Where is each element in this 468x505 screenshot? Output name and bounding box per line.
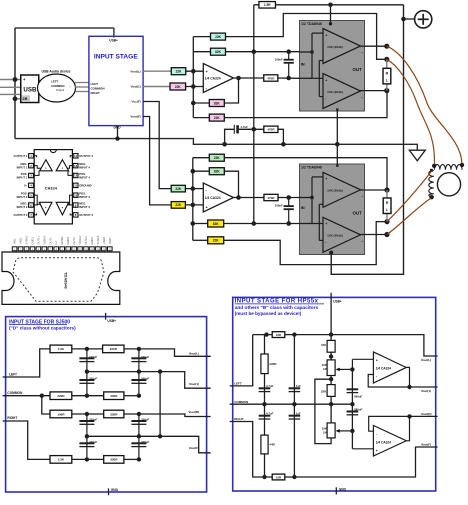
svg-text:100uF: 100uF xyxy=(89,418,97,422)
svg-text:1.5R: 1.5R xyxy=(264,3,271,7)
svg-text:R: R xyxy=(386,72,389,76)
svg-text:+: + xyxy=(325,222,327,226)
svg-text:2B: 2B xyxy=(22,96,27,101)
svg-text:-IN2R: -IN2R xyxy=(108,238,112,245)
svg-text:330R: 330R xyxy=(110,458,118,462)
svg-text:Vout(L): Vout(L) xyxy=(189,351,199,355)
svg-text:4.7uF: 4.7uF xyxy=(241,125,249,129)
svg-text:330R: 330R xyxy=(110,394,118,398)
svg-text:22K: 22K xyxy=(214,156,221,160)
svg-text:OUT: OUT xyxy=(353,67,363,72)
svg-text:82K: 82K xyxy=(214,170,221,174)
svg-text:+: + xyxy=(376,449,378,453)
svg-text:1/2 TDA8946: 1/2 TDA8946 xyxy=(301,22,322,26)
svg-text:SVRA2: SVRA2 xyxy=(96,235,100,244)
svg-text:RIGHT: RIGHT xyxy=(91,91,101,95)
svg-text:LEFT: LEFT xyxy=(91,82,99,86)
svg-text:22K: 22K xyxy=(321,389,327,393)
svg-text:+IN1L: +IN1L xyxy=(19,237,23,245)
svg-text:USB: USB xyxy=(23,86,37,93)
svg-text:2.2K: 2.2K xyxy=(58,347,65,351)
svg-text:IN: IN xyxy=(301,61,305,66)
svg-text:100uF: 100uF xyxy=(89,377,97,381)
svg-text:INPUT 2: INPUT 2 xyxy=(17,205,28,209)
svg-text:CA324: CA324 xyxy=(45,185,58,190)
svg-text:2.2K: 2.2K xyxy=(58,458,65,462)
svg-text:USB+: USB+ xyxy=(107,319,116,323)
svg-text:Vout(F): Vout(F) xyxy=(130,115,140,119)
svg-text:+: + xyxy=(325,177,327,181)
svg-text:-IN1L: -IN1L xyxy=(13,238,17,245)
svg-text:220R: 220R xyxy=(110,347,118,351)
svg-text:SVRA1: SVRA1 xyxy=(25,235,29,244)
svg-text:USB+: USB+ xyxy=(333,300,342,304)
svg-text:-: - xyxy=(325,240,326,244)
svg-text:("D" class without capacitors): ("D" class without capacitors) xyxy=(9,325,76,330)
svg-text:VDDA1: VDDA1 xyxy=(42,235,46,244)
svg-text:OUT1-: OUT1- xyxy=(48,236,52,244)
svg-text:OUTPUT 2: OUTPUT 2 xyxy=(14,213,28,217)
svg-text:1M: 1M xyxy=(323,367,328,371)
svg-text:-: - xyxy=(325,60,326,64)
svg-text:22K: 22K xyxy=(176,70,183,74)
svg-text:220R: 220R xyxy=(57,394,65,398)
svg-text:12: 12 xyxy=(74,174,78,178)
svg-text:100R: 100R xyxy=(57,412,65,416)
svg-text:Output: Output xyxy=(56,88,64,92)
svg-text:OUTPUT 4: OUTPUT 4 xyxy=(79,154,93,158)
svg-text:Vout(L): Vout(L) xyxy=(421,358,431,362)
svg-text:MODE: MODE xyxy=(60,236,64,244)
svg-text:INPUT 2: INPUT 2 xyxy=(17,195,28,199)
svg-text:Vout(1): Vout(1) xyxy=(131,85,141,89)
svg-text:22K: 22K xyxy=(175,187,182,191)
svg-text:+: + xyxy=(361,194,363,198)
svg-text:INPUT 1: INPUT 1 xyxy=(17,176,28,180)
svg-text:4.7uF: 4.7uF xyxy=(266,384,274,388)
svg-text:←: ← xyxy=(69,84,72,88)
svg-text:10R: 10R xyxy=(276,333,282,337)
svg-text:220R: 220R xyxy=(269,362,277,366)
svg-text:GROUND: GROUND xyxy=(79,184,91,188)
svg-text:Vout(R): Vout(R) xyxy=(421,412,432,416)
svg-text:+: + xyxy=(361,50,363,54)
svg-text:V+: V+ xyxy=(24,184,28,188)
svg-text:82K: 82K xyxy=(213,222,220,226)
svg-text:1uF: 1uF xyxy=(296,384,301,388)
svg-text:RIGHT: RIGHT xyxy=(7,416,17,420)
svg-text:880nF: 880nF xyxy=(354,408,362,412)
svg-text:GNDS: GNDS xyxy=(66,237,70,245)
svg-text:10X (20db): 10X (20db) xyxy=(327,234,343,238)
svg-text:1/4 CA324: 1/4 CA324 xyxy=(205,76,221,80)
svg-text:COMMON: COMMON xyxy=(91,86,105,90)
svg-text:GND2: GND2 xyxy=(90,237,94,245)
svg-text:1/4 CA324: 1/4 CA324 xyxy=(205,196,221,200)
svg-text:100uF: 100uF xyxy=(141,377,149,381)
svg-text:22K: 22K xyxy=(213,239,220,243)
svg-text:+: + xyxy=(376,359,378,363)
svg-text:Vout(1): Vout(1) xyxy=(189,382,199,386)
svg-text:22K: 22K xyxy=(175,85,182,89)
svg-text:Vout(F): Vout(F) xyxy=(189,446,199,450)
svg-text:IN: IN xyxy=(301,205,305,210)
svg-text:880nF: 880nF xyxy=(354,394,362,398)
svg-text:1uF: 1uF xyxy=(296,412,301,416)
svg-text:Vcc(F): Vcc(F) xyxy=(132,100,141,104)
svg-text:GND: GND xyxy=(111,488,119,492)
svg-text:OUTPUT 1: OUTPUT 1 xyxy=(14,154,28,158)
svg-text:10R: 10R xyxy=(276,475,282,479)
svg-text:Vout(F): Vout(F) xyxy=(421,442,431,446)
svg-text:1/4 CA324: 1/4 CA324 xyxy=(376,441,391,445)
svg-text:11: 11 xyxy=(74,184,77,188)
svg-text:10: 10 xyxy=(74,193,78,197)
svg-text:47K: 47K xyxy=(321,343,327,347)
svg-text:10X (20db): 10X (20db) xyxy=(327,45,343,49)
svg-text:INPUT 4: INPUT 4 xyxy=(79,176,90,180)
svg-text:USB Audio device: USB Audio device xyxy=(41,69,70,73)
svg-text:RIGHT: RIGHT xyxy=(234,417,244,421)
svg-text:1M: 1M xyxy=(323,430,328,434)
svg-text:100uF: 100uF xyxy=(89,440,97,444)
svg-text:GND1: GND1 xyxy=(30,237,34,245)
svg-text:+IN2R: +IN2R xyxy=(102,237,106,245)
svg-text:22K: 22K xyxy=(214,116,221,120)
svg-text:1/4 CA324: 1/4 CA324 xyxy=(376,366,391,370)
svg-text:4.7uF: 4.7uF xyxy=(266,412,274,416)
svg-text:COMMON: COMMON xyxy=(7,391,23,395)
svg-text:COMMON: COMMON xyxy=(234,400,248,404)
svg-text:82K: 82K xyxy=(215,50,222,54)
svg-text:INPUT STAGE: INPUT STAGE xyxy=(94,54,138,61)
svg-text:22K: 22K xyxy=(215,35,222,39)
svg-text:100uF: 100uF xyxy=(141,355,149,359)
svg-text:INPUT 3: INPUT 3 xyxy=(79,195,90,199)
svg-text:22K: 22K xyxy=(175,203,182,207)
svg-text:+: + xyxy=(361,239,363,243)
svg-text:INPUT 1: INPUT 1 xyxy=(17,166,28,170)
svg-text:LEFT: LEFT xyxy=(9,372,17,376)
svg-text:LEFT: LEFT xyxy=(234,382,242,386)
svg-text:Vout(R): Vout(R) xyxy=(188,410,199,414)
svg-text:USB+: USB+ xyxy=(109,38,118,42)
svg-text:-: - xyxy=(325,96,326,100)
svg-text:R: R xyxy=(386,201,389,205)
svg-text:100uF: 100uF xyxy=(89,355,97,359)
svg-text:470R: 470R xyxy=(267,128,275,132)
svg-text:COMMON: COMMON xyxy=(51,84,65,88)
svg-text:1/2 TDA8946: 1/2 TDA8946 xyxy=(301,166,322,170)
svg-text:OUT2-: OUT2- xyxy=(72,236,76,244)
svg-text:GND: GND xyxy=(339,488,347,492)
svg-text:330R: 330R xyxy=(110,412,118,416)
svg-text:44R: 44R xyxy=(269,443,275,447)
svg-text:+: + xyxy=(325,78,327,82)
svg-text:+: + xyxy=(361,95,363,99)
svg-text:OUT2+: OUT2+ xyxy=(84,235,88,244)
svg-text:14: 14 xyxy=(74,154,78,158)
svg-text:INPUT 3: INPUT 3 xyxy=(79,205,90,209)
svg-text:470R: 470R xyxy=(267,196,275,200)
svg-text:10X (20db): 10X (20db) xyxy=(327,90,343,94)
svg-text:n.c.: n.c. xyxy=(55,240,58,245)
svg-text:13: 13 xyxy=(74,164,78,168)
svg-text:+: + xyxy=(325,33,327,37)
svg-text:10X (20db): 10X (20db) xyxy=(327,189,343,193)
svg-text:TDA8946: TDA8946 xyxy=(64,272,69,289)
svg-text:Vout(1): Vout(1) xyxy=(421,389,431,393)
svg-text:INPUT 4: INPUT 4 xyxy=(79,166,90,170)
svg-text:Vout(L): Vout(L) xyxy=(130,69,140,73)
svg-text:100uF: 100uF xyxy=(141,440,149,444)
svg-text:100uF: 100uF xyxy=(141,418,149,422)
svg-text:82K: 82K xyxy=(214,101,221,105)
svg-text:470R: 470R xyxy=(267,76,275,80)
svg-text:VDDA2: VDDA2 xyxy=(78,235,82,244)
svg-text:OUT1+: OUT1+ xyxy=(36,235,40,244)
svg-text:OUT: OUT xyxy=(353,211,363,216)
svg-text:100nF: 100nF xyxy=(275,57,283,61)
svg-text:OUTPUT 3: OUTPUT 3 xyxy=(79,213,93,217)
svg-text:100nF: 100nF xyxy=(275,204,283,208)
svg-text:(must be bypassed as device!): (must be bypassed as device!) xyxy=(235,311,302,316)
svg-text:-: - xyxy=(325,204,326,208)
